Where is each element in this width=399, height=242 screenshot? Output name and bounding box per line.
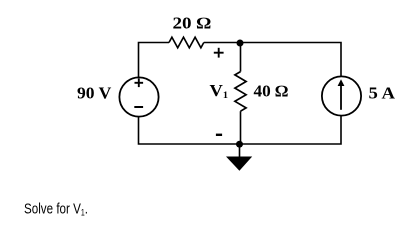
svg-text:5 A: 5 A (369, 84, 396, 103)
voltage source plus sign (135, 79, 144, 88)
current source I 5A circle (322, 76, 361, 115)
node A top junction dot (237, 40, 244, 47)
wire middle branch top (240, 43, 242, 72)
wire top-left segment (139, 43, 170, 78)
current source arrow head (338, 79, 345, 86)
resistor R2 40 ohm zigzag (235, 72, 246, 112)
ground triangle (226, 157, 252, 171)
wire right-bottom segment (139, 116, 342, 145)
voltage source V 90V circle (119, 77, 158, 116)
wire middle branch bottom (240, 111, 242, 144)
svg-text:Solve for V1.: Solve for V1. (24, 200, 88, 217)
resistor R1 20 ohm zigzag (169, 37, 204, 48)
svg-text:20 Ω: 20 Ω (173, 14, 212, 33)
polarity plus above resistor R2 (214, 48, 224, 58)
svg-text:40 Ω: 40 Ω (254, 82, 289, 101)
polarity minus below resistor R2 (216, 134, 222, 136)
wire top-right segment (204, 43, 341, 77)
current source arrow shaft (340, 85, 342, 110)
svg-text:90 V: 90 V (77, 84, 112, 103)
ground stem (239, 144, 241, 157)
voltage source minus sign (134, 106, 143, 108)
node B bottom junction dot (236, 141, 243, 148)
